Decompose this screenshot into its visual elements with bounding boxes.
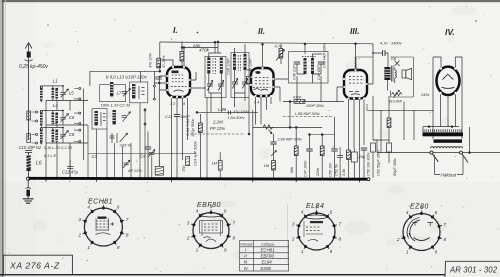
tube V4 pin gaps: [439, 67, 456, 94]
loudspeaker: [391, 57, 414, 97]
detector wire: [283, 101, 344, 103]
electrolytic 25u: [351, 148, 365, 178]
stray ink marks: [47, 20, 476, 147]
pin wires down: [172, 98, 188, 178]
B+ feed wires: [373, 96, 389, 153]
svg-text:2: 2: [186, 236, 190, 241]
svg-text:I.: I.: [173, 25, 178, 35]
wire coil to bus: [28, 171, 30, 177]
svg-text:EZ80: EZ80: [261, 266, 272, 271]
band row 1 bottom wire: [46, 99, 88, 101]
tube V4 filament: [442, 87, 455, 88]
band row 1 top wire: [41, 86, 63, 101]
svg-text:5 4: 5 4: [254, 101, 259, 105]
svg-text:C50 10n: C50 10n: [329, 163, 333, 177]
wire V3 top to rail: [355, 44, 357, 69]
tube V4 EZ80: [437, 67, 460, 95]
tube V2 electrodes: [253, 71, 271, 91]
svg-text:1M: 1M: [212, 161, 218, 166]
tube base EL84: [291, 203, 342, 254]
svg-text:6,1 L.8: 6,1 L.8: [44, 154, 56, 158]
svg-text:IV.: IV.: [445, 27, 455, 37]
bus stub ticks: [46, 180, 360, 183]
svg-text:100P 300v: 100P 300v: [306, 104, 325, 108]
svg-text:5: 5: [315, 205, 318, 210]
svg-text:4: 4: [87, 204, 90, 209]
capacitor 100p: [174, 115, 180, 117]
switch column wire: [46, 89, 84, 178]
wire plate to rail: [161, 48, 184, 67]
svg-text:9: 9: [224, 248, 227, 253]
wire V1 plate to IF1: [190, 72, 206, 88]
svg-text:6: 6: [330, 209, 333, 214]
wire det down: [289, 102, 291, 128]
switch contacts row 3: [74, 130, 79, 141]
tube V1 grids: [171, 71, 187, 92]
svg-text:7: 7: [233, 221, 236, 226]
svg-text:7: 7: [339, 222, 342, 227]
switch contacts row 1: [74, 89, 79, 99]
tube V2 EBF80: [251, 68, 274, 96]
pin wires down: [349, 99, 365, 178]
wire grid to coils: [154, 76, 167, 167]
svg-text:C22 47µ: C22 47µ: [62, 170, 79, 175]
coil T1b: [220, 58, 223, 74]
electrolytic C63: [387, 140, 398, 176]
wire column C: [145, 71, 154, 126]
tube V1 pin gaps: [166, 66, 191, 98]
svg-text:Fokozat: Fokozat: [240, 242, 253, 246]
band row 2 bottom wire: [46, 124, 88, 126]
resistor 68k drop: [294, 146, 298, 156]
svg-text:4: 4: [196, 209, 199, 214]
svg-text:C24 4µP 300v: C24 4µP 300v: [193, 140, 198, 166]
svg-text:4,7k: 4,7k: [275, 44, 284, 49]
resistor 1M osc: [218, 161, 222, 171]
coil L4b pair: [52, 113, 59, 125]
svg-text:7: 7: [444, 222, 447, 227]
trimmer L11: [123, 112, 131, 122]
svg-text:470k: 470k: [199, 48, 210, 53]
coil L9: [132, 84, 135, 98]
svg-text:2: 2: [77, 232, 81, 237]
capacitor C44: [318, 62, 324, 64]
switch pole 2: [460, 151, 463, 154]
svg-text:II.: II.: [258, 26, 265, 36]
trimmer bottom row: [123, 160, 130, 168]
title box AR 301-302: [445, 261, 500, 277]
svg-text:PP 12%: PP 12%: [210, 126, 225, 131]
paper creases and wash: [286, 204, 288, 263]
mains cord: [435, 155, 464, 175]
switch contacts row 2: [74, 113, 79, 123]
svg-text:C56 10n 300v: C56 10n 300v: [367, 151, 371, 176]
svg-text:C52 5n: C52 5n: [334, 164, 338, 176]
resistor 1M: [272, 161, 276, 171]
trimmer unit A1: [123, 88, 131, 96]
coil T2a: [233, 54, 236, 70]
svg-text:b 9,0 L13 U10P-100v: b 9,0 L13 U10P-100v: [106, 75, 147, 80]
svg-text:47-26%: 47-26%: [162, 55, 166, 68]
tube V4 anodes: [443, 74, 454, 79]
svg-text:AP 12%: AP 12%: [127, 169, 142, 173]
IF transformer T1 box: [205, 57, 226, 98]
svg-text:6: 6: [224, 209, 227, 214]
wire to V2 top: [262, 44, 264, 67]
oscillator top wire: [90, 71, 160, 86]
core dashes: [302, 56, 316, 58]
mains transformer primary bar: [423, 132, 464, 136]
chassis ground bus: [29, 177, 371, 181]
vertical line right: [469, 127, 471, 153]
coil L1a: [40, 88, 43, 99]
wires to bus: [88, 103, 152, 178]
resistor 220k: [320, 146, 324, 156]
pot A/B: [389, 90, 403, 103]
coil T2b: [244, 54, 247, 70]
svg-text:7: 7: [126, 217, 129, 222]
svg-text:C8: C8: [69, 132, 75, 137]
svg-text:C11: C11: [165, 114, 172, 119]
trimmer C9: [148, 150, 156, 158]
svg-text:50µF 350v: 50µF 350v: [393, 157, 397, 176]
wires T3: [297, 44, 322, 74]
trimmer cap row 2: [60, 116, 66, 118]
coil T3a: [304, 58, 307, 74]
svg-text:25µ: 25µ: [358, 155, 366, 159]
svg-text:Csőtípus: Csőtípus: [261, 242, 275, 246]
valve table frame: [240, 241, 289, 272]
svg-text:C40 21P: C40 21P: [293, 65, 297, 80]
svg-text:EL84: EL84: [262, 260, 273, 265]
IF transformer T3 box: [289, 52, 329, 84]
ground terminal plug: [27, 177, 30, 180]
mains line: [377, 152, 500, 154]
pot arm: [271, 149, 277, 160]
svg-text:C46 HkP-300v: C46 HkP-300v: [323, 42, 327, 68]
mains transformer secondary bar: [434, 139, 463, 142]
band row 3 top wire: [41, 128, 63, 144]
core: [213, 58, 216, 74]
svg-text:0,25 kp-450v: 0,25 kp-450v: [19, 64, 48, 70]
svg-text:n33 %: n33 %: [120, 143, 132, 148]
wire T1 top to rail: [209, 42, 245, 57]
wire plate right: [367, 44, 373, 84]
svg-text:4: 4: [406, 210, 409, 215]
antenna: [25, 43, 32, 63]
unit row3 caps: [112, 133, 117, 143]
svg-text:10µ: 10µ: [180, 165, 185, 172]
svg-text:8: 8: [444, 237, 447, 242]
svg-text:L7: L7: [117, 90, 122, 95]
resistor 10n: [186, 157, 190, 166]
bottom frame line: [0, 274, 445, 276]
long wire y153: [88, 153, 196, 155]
title box XA 276 A-Z: [3, 255, 72, 275]
trimmers T2: [232, 78, 238, 88]
tube base ECH81: [77, 199, 129, 250]
wave switch contact b: [27, 134, 38, 145]
AVC dashed line: [283, 116, 332, 118]
svg-text:220k: 220k: [316, 167, 320, 177]
AF takeoff wire: [197, 111, 258, 113]
switch pole 1: [430, 151, 433, 154]
AF bus wire: [253, 126, 322, 128]
svg-text:1: 1: [87, 245, 90, 250]
volume pot zigzag: [263, 125, 273, 134]
coil L6: [26, 156, 42, 172]
svg-text:8: 8: [339, 237, 342, 242]
svg-text:XA 276 A-Z: XA 276 A-Z: [9, 261, 60, 271]
coil T3b: [311, 58, 314, 74]
resistor osc: [199, 123, 203, 133]
wires V4 bottom: [441, 94, 456, 126]
svg-text:3: 3: [78, 217, 81, 222]
svg-text:5: 5: [420, 205, 423, 210]
tube V3 electrodes: [349, 77, 362, 95]
svg-text:1: 1: [196, 248, 199, 253]
pin wires down: [256, 97, 272, 125]
svg-text:100µ 500v: 100µ 500v: [190, 118, 195, 137]
svg-text:L3: L3: [53, 120, 59, 125]
svg-text:C47 100n: C47 100n: [304, 161, 308, 177]
svg-text:47k 10%: 47k 10%: [149, 53, 153, 68]
svg-text:6: 6: [435, 210, 438, 215]
tube V2 pin gaps: [250, 67, 275, 97]
HT top rail: [160, 42, 373, 44]
wire T1 drop: [211, 93, 245, 112]
svg-text:2: 2: [291, 237, 295, 242]
svg-text:1: 1: [406, 249, 409, 254]
wire V2 plate right: [274, 79, 289, 102]
heater wires: [404, 102, 414, 141]
svg-text:C6: C6: [69, 115, 75, 120]
svg-text:AR 301 - 302: AR 301 - 302: [449, 265, 498, 274]
svg-text:9: 9: [117, 245, 120, 250]
output transformer T4: [384, 56, 399, 91]
cathode resistor box: [347, 150, 351, 160]
svg-text:1,5n-500v: 1,5n-500v: [228, 116, 246, 120]
osc unit box A2: [92, 109, 107, 129]
svg-text:2: 2: [396, 237, 400, 242]
wire g2 rail: [182, 48, 218, 54]
wire antenna down: [28, 62, 30, 140]
wire rail drop left: [159, 42, 161, 71]
filter resistor: [387, 118, 391, 128]
svg-text:L5: L5: [69, 90, 74, 95]
svg-text:III.: III.: [350, 26, 359, 36]
trimmer cap row 1: [60, 92, 66, 94]
capacitor C52: [337, 155, 343, 157]
svg-text:C44 85P: C44 85P: [317, 65, 321, 80]
wave switch contact a: [27, 111, 38, 122]
wire grid in: [337, 87, 344, 102]
svg-text:3: 3: [187, 221, 190, 226]
svg-text:8: 8: [233, 236, 236, 241]
ground: [23, 199, 34, 203]
feedback line: [367, 104, 434, 110]
tube V3 pin gaps: [343, 69, 368, 100]
coil L7: [110, 82, 113, 96]
svg-text:8: 8: [126, 232, 129, 237]
capacitor C50: [331, 149, 337, 151]
coil L4a: [40, 113, 43, 124]
electrolytic C62: [371, 143, 381, 178]
HT distribution line: [423, 126, 459, 128]
svg-text:C38 46P 300v: C38 46P 300v: [278, 137, 304, 142]
svg-text:470k: 470k: [293, 96, 302, 100]
svg-text:5: 5: [210, 204, 213, 209]
wires V4 top: [433, 57, 462, 139]
tube V3 EL84: [344, 70, 367, 99]
coil L10: [95, 111, 98, 125]
svg-text:5: 5: [102, 200, 105, 205]
resistor 47k: [157, 58, 161, 68]
osc unit box B1: [130, 82, 148, 103]
trimmers T1: [207, 80, 213, 90]
table rows: [244, 248, 276, 271]
svg-text:9: 9: [330, 249, 333, 254]
tube V1 ECH81: [167, 67, 190, 97]
tube base EZ80: [396, 204, 447, 255]
wire T3 drops: [297, 74, 321, 102]
wire T2 to V2 grid: [247, 69, 253, 71]
tube base EBF80: [186, 202, 236, 253]
capacitor C47: [306, 149, 312, 151]
svg-text:L1: L1: [53, 78, 59, 83]
svg-text:C10 33P N2: C10 33P N2: [19, 145, 42, 150]
band row 2 top wire: [41, 111, 63, 126]
coupling cap: [270, 142, 276, 144]
junction dots on bus: [56, 177, 361, 180]
coil L11: [113, 110, 116, 124]
svg-text:2,2M: 2,2M: [212, 120, 223, 125]
trimmer row3b: [120, 133, 128, 142]
osc unit box A1: [100, 85, 126, 102]
capacitor C56: [361, 148, 367, 150]
grid tab on V2 left: [247, 76, 251, 83]
trimmer cap row 3: [60, 133, 66, 135]
resistor block: [155, 167, 163, 176]
coil L1b pair: [52, 88, 59, 100]
svg-text:6: 6: [117, 204, 120, 209]
capacitor C40: [294, 62, 300, 64]
svg-text:413-6W: 413-6W: [389, 99, 403, 103]
capacitor C22: [67, 166, 74, 168]
resistor 68k: [180, 52, 184, 62]
svg-text:3: 3: [292, 222, 295, 227]
IF transformer T2 box: [231, 53, 249, 98]
coil L3b pair: [52, 130, 59, 142]
heater winding bumps: [431, 147, 463, 149]
svg-text:C28 110P: C28 110P: [227, 58, 231, 75]
svg-text:5,1k L.33 C,2.33: 5,1k L.33 C,2.33: [44, 146, 73, 150]
svg-text:100P: 100P: [181, 114, 191, 119]
core: [238, 55, 240, 71]
coil L3a: [40, 130, 43, 142]
svg-text:4,7n - 1400v: 4,7n - 1400v: [380, 41, 403, 46]
bus end terminal: [367, 178, 370, 181]
svg-text:100n 1,33 C2 33: 100n 1,33 C2 33: [101, 103, 131, 108]
capacitor pad: [145, 147, 151, 149]
series capacitor on AF wire: [227, 111, 229, 115]
svg-text:ECH81: ECH81: [88, 199, 113, 206]
resistor det: [294, 100, 305, 104]
svg-text:245v: 245v: [420, 92, 430, 97]
svg-text:L.88: L.88: [218, 107, 227, 112]
svg-text:L.88 HkP 300v: L.88 HkP 300v: [295, 112, 321, 116]
svg-text:Hálózat: Hálózat: [441, 173, 457, 178]
svg-text:1 2: 1 2: [170, 102, 176, 106]
svg-text:4: 4: [301, 209, 304, 214]
potentiometer 4.7k above: [279, 49, 283, 59]
svg-text:1: 1: [301, 249, 304, 254]
svg-text:L6: L6: [36, 161, 42, 167]
junction dots: [158, 82, 160, 84]
svg-text:ECH81: ECH81: [261, 248, 276, 253]
svg-text:3,3k: 3,3k: [342, 168, 346, 176]
grid stopper coil above V3: [355, 58, 357, 69]
primary fine winding: [423, 129, 461, 132]
svg-text:1M: 1M: [264, 163, 270, 168]
coil T1a: [207, 58, 210, 74]
svg-text:9: 9: [435, 249, 438, 254]
band row 3 bottom wire: [46, 142, 88, 144]
svg-text:EBF80: EBF80: [261, 254, 275, 259]
wire T1 left drop: [207, 98, 249, 178]
